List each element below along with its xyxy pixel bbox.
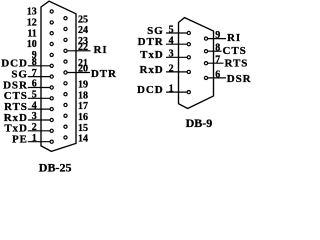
J1 pin 20 contact	[64, 71, 67, 74]
wire J2 pin 1 (DCD)	[166, 91, 189, 93]
svg-text:12: 12	[27, 18, 37, 29]
connector J2 DB-9 body	[179, 18, 214, 109]
J1 pin 6 contact	[50, 86, 53, 89]
J2 pin 6 contact	[204, 76, 207, 79]
J1 pin 22 contact	[64, 49, 67, 52]
wire J1 pin 1 (PE)	[28, 141, 52, 143]
svg-text:2: 2	[32, 122, 37, 133]
J1 pin 25 contact	[64, 17, 67, 20]
J2 pin 1 contact	[187, 91, 190, 94]
J2 pin 8 contact	[204, 50, 207, 53]
svg-text:24: 24	[78, 25, 88, 36]
svg-text:15: 15	[78, 123, 88, 134]
J1 pin 4 contact	[50, 108, 53, 111]
wire J1 pin 22 (RI)	[66, 50, 91, 52]
svg-text:SG: SG	[147, 25, 163, 37]
svg-text:DCD: DCD	[137, 84, 164, 96]
J1 pin 15 contact	[64, 125, 67, 128]
svg-text:25: 25	[78, 14, 88, 25]
svg-text:22: 22	[78, 42, 88, 53]
wire J1 pin 6 (DSR)	[28, 87, 52, 89]
svg-text:5: 5	[32, 90, 37, 101]
J1 pin 17 contact	[64, 103, 67, 106]
wire J1 pin 2 (TxD)	[28, 130, 52, 132]
wire J2 pin 4 (DTR)	[166, 43, 189, 45]
svg-text:TxD: TxD	[140, 49, 163, 61]
J1 pin 14 contact	[64, 136, 67, 139]
svg-text:CTS: CTS	[223, 45, 247, 57]
svg-text:RxD: RxD	[140, 64, 164, 76]
J1 pin 18 contact	[64, 93, 67, 96]
wire J2 pin 2 (RxD)	[166, 71, 189, 73]
J1 pin 11 contact	[50, 32, 53, 35]
J1 pin 10 contact	[50, 42, 53, 45]
J1 pin 7 contact	[50, 75, 53, 78]
wire J2 pin 5 (SG)	[166, 32, 189, 34]
wire J1 pin 7 (SG)	[28, 76, 52, 78]
J2 pin 9 contact	[204, 37, 207, 40]
svg-text:DTR: DTR	[138, 36, 164, 48]
J1 pin 3 contact	[50, 118, 53, 121]
J1 pin 2 contact	[50, 129, 53, 132]
J1 pin 9 contact	[50, 53, 53, 56]
wire J2 pin 7 (RTS)	[206, 62, 224, 64]
svg-text:14: 14	[78, 134, 88, 145]
svg-text:3: 3	[32, 111, 37, 122]
svg-text:6: 6	[215, 69, 220, 80]
svg-text:RI: RI	[94, 44, 108, 56]
wire J1 pin 3 (RxD)	[28, 119, 52, 121]
svg-text:1: 1	[32, 133, 37, 144]
J1 pin 13 contact	[50, 10, 53, 13]
svg-text:9: 9	[215, 30, 220, 41]
wire J2 pin 8 (CTS)	[206, 50, 222, 52]
J1 pin 16 contact	[64, 114, 67, 117]
wire J2 pin 6 (DSR)	[206, 77, 226, 79]
svg-text:DTR: DTR	[91, 68, 117, 80]
svg-text:8: 8	[215, 43, 220, 54]
svg-text:6: 6	[32, 79, 37, 90]
svg-text:PE: PE	[12, 134, 28, 146]
svg-text:19: 19	[78, 80, 88, 91]
J1 pin 1 contact	[50, 140, 53, 143]
J2 pin 4 contact	[187, 43, 190, 46]
J1 pin 8 contact	[50, 64, 53, 67]
svg-text:DSR: DSR	[227, 73, 252, 85]
J1 pin 19 contact	[64, 82, 67, 85]
svg-text:18: 18	[78, 90, 88, 101]
wire J1 pin 4 (RTS)	[28, 108, 52, 110]
svg-text:8: 8	[32, 57, 37, 68]
svg-text:13: 13	[27, 7, 37, 18]
svg-text:4: 4	[32, 100, 37, 111]
svg-text:2: 2	[169, 63, 174, 74]
J1 pin 24 contact	[64, 27, 67, 30]
svg-text:7: 7	[32, 68, 37, 79]
svg-text:16: 16	[78, 112, 88, 123]
J1 pin 12 contact	[50, 21, 53, 24]
J2 pin 2 contact	[187, 70, 190, 73]
J2 pin 5 contact	[187, 31, 190, 34]
wire J1 pin 8 (DCD)	[28, 65, 52, 67]
svg-text:20: 20	[78, 64, 88, 75]
svg-text:5: 5	[169, 24, 174, 35]
svg-text:11: 11	[27, 28, 36, 39]
J1 pin 23 contact	[64, 38, 67, 41]
wire J1 pin 20 (DTR)	[66, 72, 91, 74]
svg-text:DB-9: DB-9	[186, 116, 213, 130]
J1 pin 21 contact	[64, 60, 67, 63]
wire J2 pin 9 (RI)	[206, 38, 226, 40]
svg-text:DB-25: DB-25	[39, 161, 72, 175]
wire J2 pin 3 (TxD)	[166, 56, 189, 58]
svg-text:RI: RI	[227, 32, 241, 44]
svg-text:7: 7	[215, 55, 220, 66]
wire J1 pin 5 (CTS)	[28, 97, 52, 99]
connector J1 DB-25 body	[41, 1, 76, 151]
svg-text:4: 4	[169, 36, 174, 47]
J2 pin 7 contact	[204, 62, 207, 65]
svg-text:3: 3	[169, 49, 174, 60]
svg-text:1: 1	[169, 84, 174, 95]
svg-text:17: 17	[78, 101, 88, 112]
svg-text:10: 10	[27, 39, 37, 50]
J2 pin 3 contact	[187, 56, 190, 59]
J1 pin 5 contact	[50, 97, 53, 100]
svg-text:RTS: RTS	[225, 58, 249, 70]
